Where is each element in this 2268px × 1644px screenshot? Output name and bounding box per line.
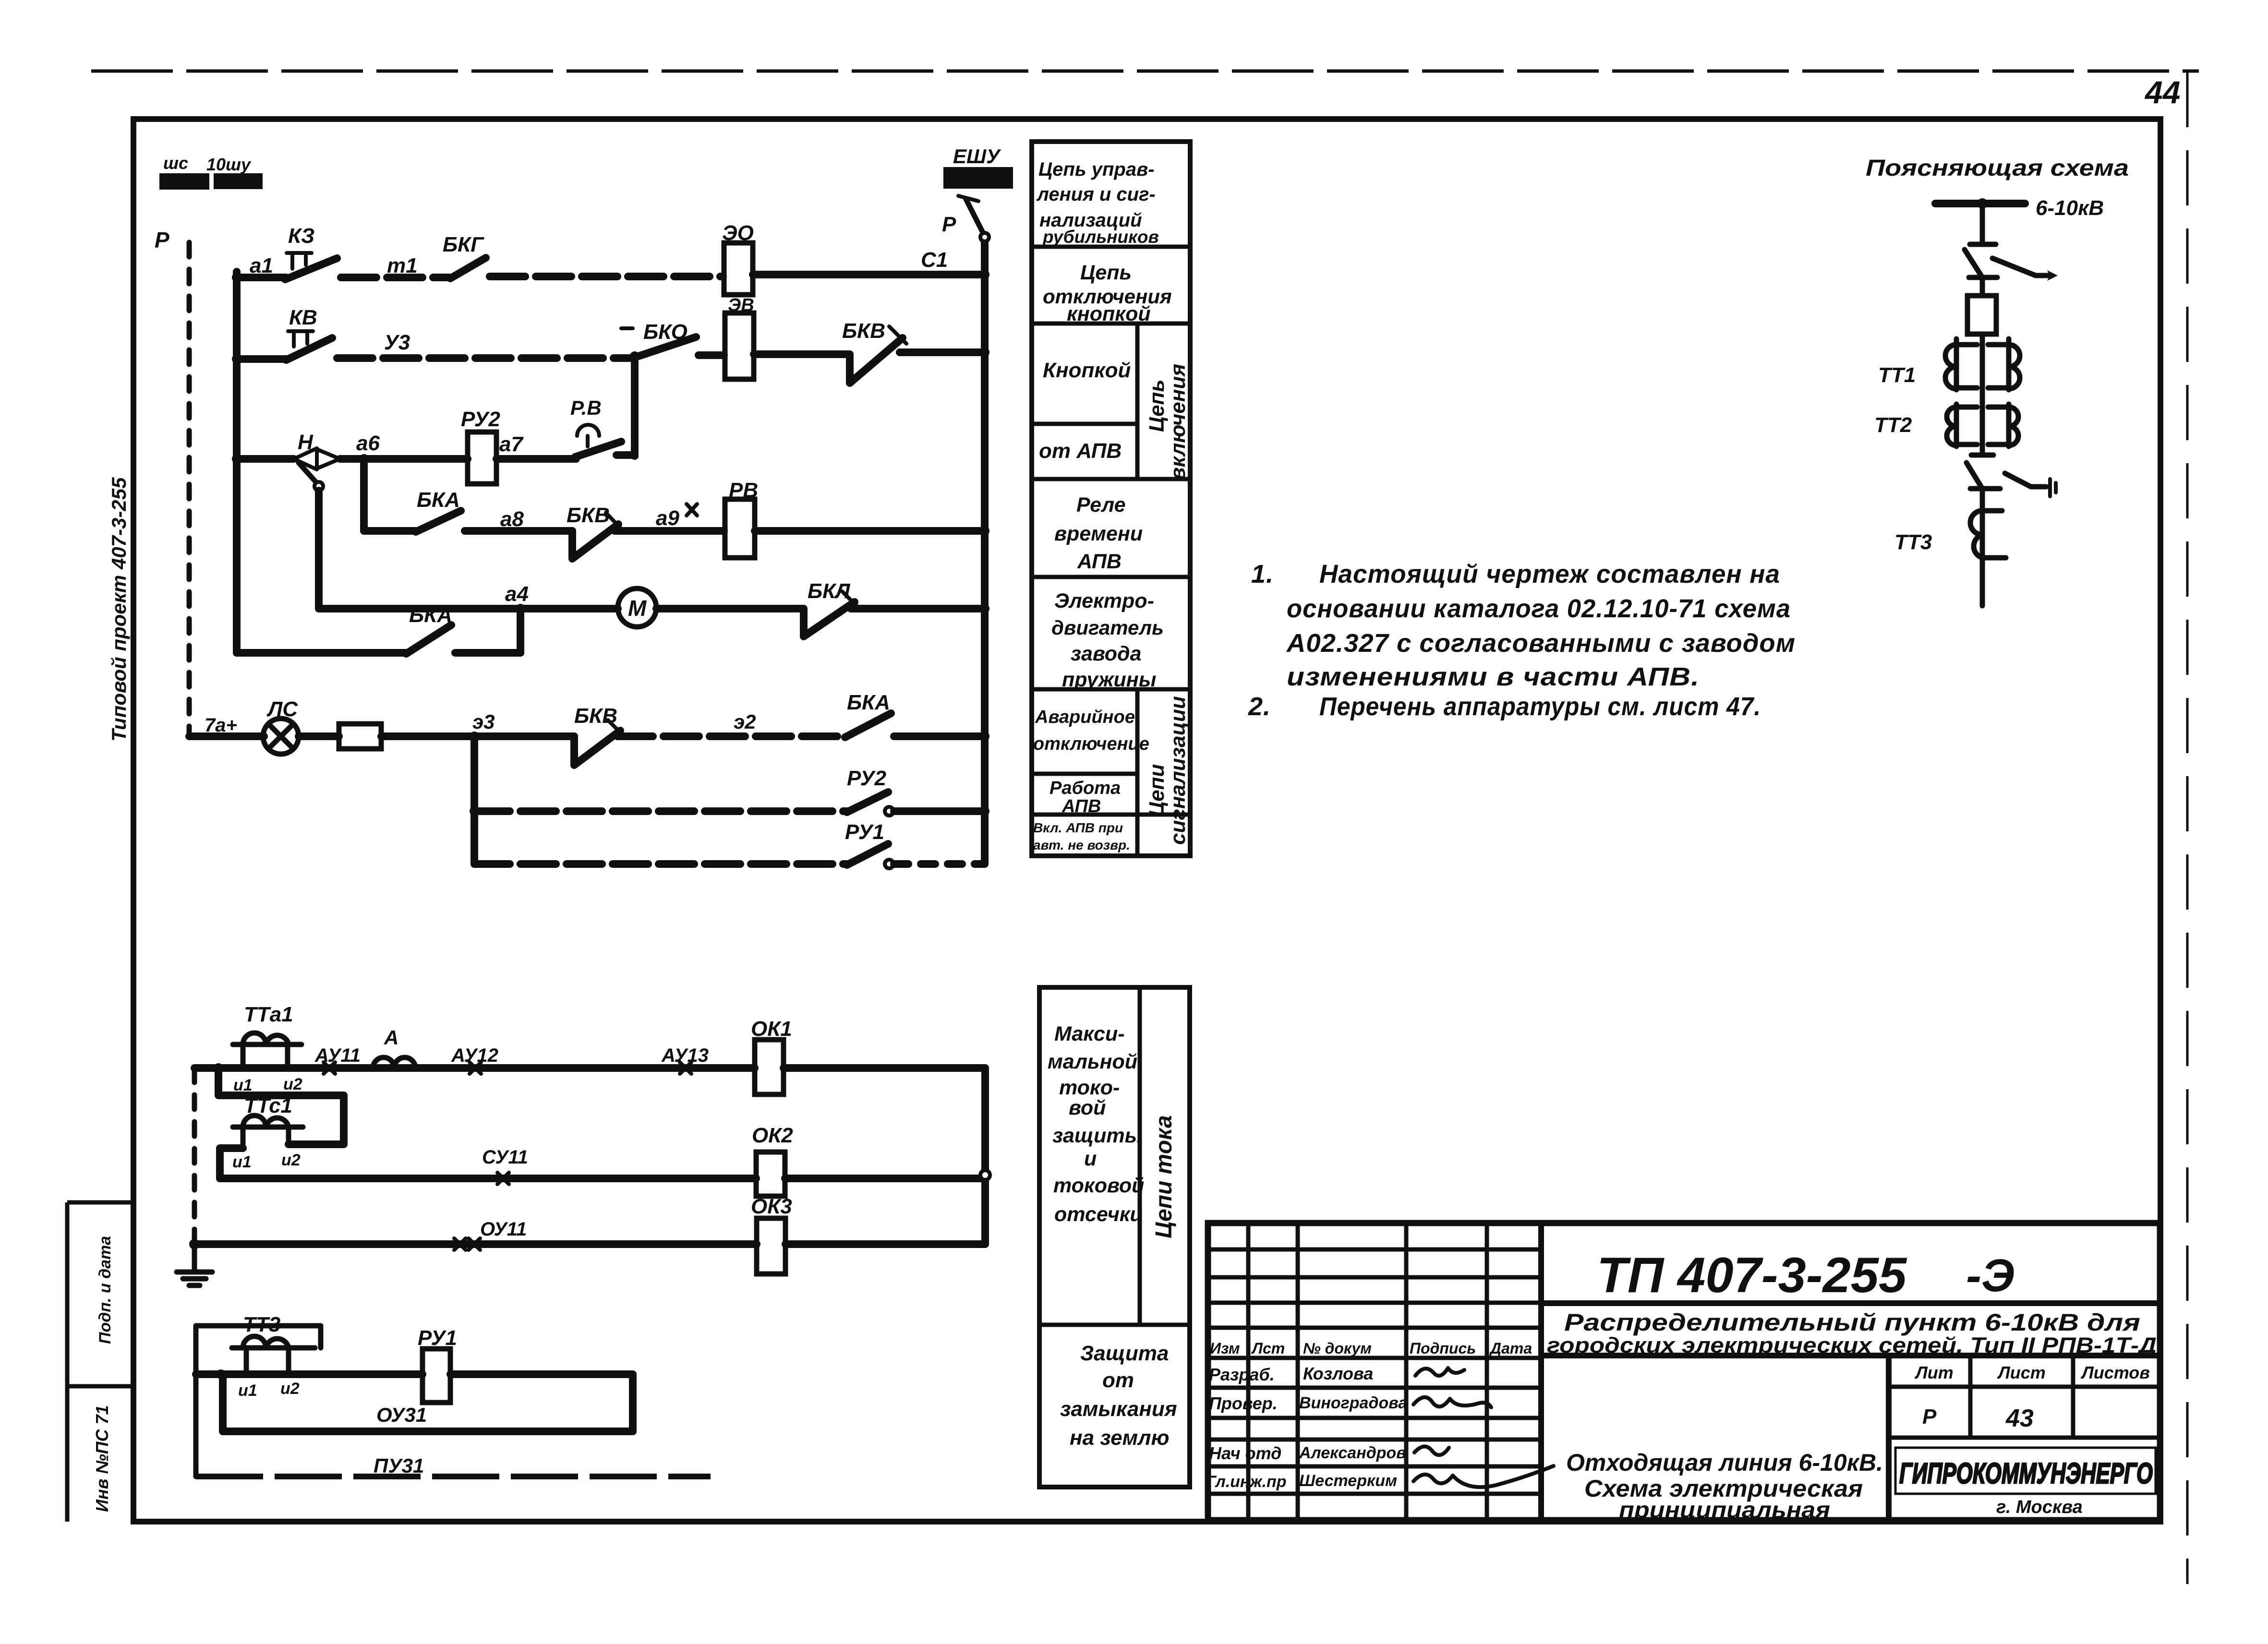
svg-text:кнопкой: кнопкой — [1067, 302, 1151, 325]
contact KV (button, NO) — [286, 306, 332, 360]
coil RV (time relay) — [725, 479, 758, 558]
svg-text:БКВ: БКВ — [567, 504, 610, 527]
svg-text:ТТ3: ТТ3 — [1894, 530, 1932, 554]
wire to TT3 — [1980, 489, 1985, 511]
wire row2 left segment — [232, 354, 241, 364]
svg-text:и2: и2 — [283, 1075, 302, 1093]
left margin stamp box upper — [67, 1202, 133, 1522]
svg-text:Поясняющая схема: Поясняющая схема — [1866, 156, 2129, 181]
CT TTc1 — [232, 1094, 303, 1171]
redaction bar 3 — [943, 167, 1013, 189]
contact RU1 (NO) — [845, 820, 893, 868]
svg-text:и1: и1 — [238, 1381, 257, 1400]
svg-text:а9: а9 — [656, 506, 679, 530]
wire row D (TT3 secondary), node — [216, 1369, 226, 1379]
contact BKA (NO) row4 — [416, 488, 461, 532]
CT TT3 (zero sequence) — [196, 1313, 321, 1476]
CT TT1 — [1878, 339, 2020, 390]
sheet outer right edge (dashed) — [2186, 72, 2189, 1584]
svg-text:С1: С1 — [921, 248, 948, 272]
wire row B (phase C current), node СУ11 — [220, 1175, 756, 1182]
wire: riser lamp row to RU rows — [470, 736, 478, 864]
ground (current circuits) — [177, 1239, 212, 1285]
wire lamp row right end — [894, 732, 985, 740]
relay coil OK1 — [751, 1017, 792, 1094]
svg-text:43: 43 — [2005, 1404, 2034, 1432]
svg-text:Гл.инж.пр: Гл.инж.пр — [1206, 1473, 1287, 1491]
svg-text:Подп. и дата: Подп. и дата — [96, 1236, 114, 1344]
svg-text:Козлова: Козлова — [1303, 1364, 1373, 1383]
svg-text:Дата: Дата — [1489, 1340, 1532, 1357]
contact BKV (breaker aux, NC) row2 — [842, 319, 906, 383]
svg-text:ЕШУ: ЕШУ — [953, 145, 1001, 168]
relay coil RU1 (earth fault relay) — [418, 1326, 457, 1403]
motor M (spring winding) — [618, 588, 656, 627]
wire outgoing line — [1980, 511, 1985, 606]
wire row D right — [450, 1374, 633, 1431]
svg-text:ления и сиг-: ления и сиг- — [1036, 184, 1156, 205]
svg-text:БКВ: БКВ — [842, 319, 885, 343]
wire row A (phase A current), node АУ11 — [214, 1063, 223, 1073]
svg-text:Цепи тока: Цепи тока — [1151, 1115, 1177, 1238]
wire lamp row left, node 7a+ — [189, 732, 264, 740]
CT TT3 (cable type) — [1894, 511, 2006, 558]
wire row4 right end — [755, 527, 985, 535]
svg-text:а6: а6 — [356, 432, 380, 455]
svg-text:ТТа1: ТТа1 — [244, 1003, 293, 1026]
svg-text:защиты: защиты — [1052, 1124, 1142, 1147]
svg-text:э2: э2 — [734, 710, 756, 733]
svg-text:БКА: БКА — [409, 603, 452, 627]
svg-text:РУ2: РУ2 — [847, 767, 886, 790]
disconnector DS1 with earthing knife — [1965, 250, 2058, 281]
svg-text:г. Москва: г. Москва — [1996, 1497, 2083, 1517]
svg-text:Защита: Защита — [1080, 1342, 1169, 1365]
contact BKA (NO) bypass — [406, 603, 452, 654]
svg-text:Цепь управ-: Цепь управ- — [1038, 159, 1155, 180]
wire RU2 row (dashed) — [470, 806, 479, 816]
svg-text:Александров: Александров — [1299, 1444, 1406, 1462]
svg-text:Виноградова: Виноградова — [1299, 1394, 1407, 1412]
svg-text:т1: т1 — [387, 254, 418, 277]
svg-text:БКА: БКА — [417, 488, 460, 512]
wire row A right — [784, 1064, 985, 1072]
svg-text:КЗ: КЗ — [288, 224, 314, 248]
svg-text:ОК2: ОК2 — [752, 1124, 793, 1147]
svg-text:СУ11: СУ11 — [482, 1147, 528, 1168]
title block: organisation logo — [1895, 1448, 2156, 1494]
relay coil OK2 — [752, 1124, 793, 1196]
wire bypass row (BKA) — [237, 649, 406, 657]
svg-text:токо-: токо- — [1059, 1076, 1120, 1099]
svg-text:Шестерким: Шестерким — [1299, 1472, 1397, 1490]
wire row F (primary loop), node ПУ31 — [196, 1474, 711, 1479]
wire row E (return), node ОУ31 — [223, 1374, 633, 1431]
svg-text:АУ13: АУ13 — [661, 1045, 709, 1066]
svg-text:Перечень аппаратуры см. лист 4: Перечень аппаратуры см. лист 47. — [1319, 692, 1761, 721]
disconnector P (top right) — [942, 196, 989, 241]
wire row1 left segment, node a1 — [232, 273, 241, 282]
svg-text:основании каталога 02.12.10-71: основании каталога 02.12.10-71 схема — [1287, 594, 1791, 623]
switch N (manual, bowtie) — [294, 431, 340, 469]
svg-text:Отходящая линия 6-10кВ.: Отходящая линия 6-10кВ. — [1566, 1449, 1883, 1476]
wire: riser a6 to row4 — [360, 459, 368, 531]
svg-text:а1: а1 — [250, 254, 273, 277]
svg-text:сигнализации: сигнализации — [1166, 696, 1190, 845]
contact KZ (button, NO) — [285, 224, 337, 279]
wire row C right — [785, 1240, 985, 1248]
sheet outer top edge (dashed) — [91, 70, 2199, 73]
wire row2 right end — [900, 348, 985, 356]
wire row3 left segment — [232, 454, 241, 464]
svg-text:БКГ: БКГ — [443, 233, 484, 256]
svg-text:от: от — [1102, 1368, 1134, 1392]
svg-text:6-10кВ: 6-10кВ — [2036, 196, 2104, 220]
contact BKV (breaker aux, NC) lamp row — [574, 704, 623, 765]
svg-text:Нач отд: Нач отд — [1209, 1443, 1281, 1463]
svg-text:включения: включения — [1166, 364, 1190, 480]
svg-text:У3: У3 — [384, 331, 410, 354]
svg-text:ПУ31: ПУ31 — [374, 1454, 424, 1477]
disconnector DS2 with earthing knife — [1966, 463, 2056, 496]
wire loop TTa1 to TTc1 — [218, 1068, 344, 1144]
svg-text:10шу: 10шу — [206, 155, 252, 174]
wire bypass right to a4 riser — [455, 649, 520, 657]
svg-text:а7: а7 — [499, 432, 524, 456]
left margin stamp box divider — [67, 1384, 133, 1389]
svg-text:ОУ11: ОУ11 — [480, 1219, 527, 1240]
relay coil OK3 — [751, 1195, 792, 1274]
svg-text:ОУ31: ОУ31 — [376, 1404, 427, 1426]
wire row5 right end — [851, 605, 985, 612]
svg-text:мальной: мальной — [1048, 1050, 1137, 1073]
inductor A (reactor) — [373, 1026, 415, 1068]
svg-text:АУ12: АУ12 — [451, 1045, 498, 1066]
wire to resistor — [299, 732, 339, 740]
svg-text:от АПВ: от АПВ — [1039, 439, 1122, 463]
svg-text:Вкл. АПВ при: Вкл. АПВ при — [1033, 820, 1123, 835]
svg-text:Настоящий чертеж составлен н: Настоящий чертеж составлен на — [1319, 560, 1780, 588]
svg-text:Реле: Реле — [1076, 493, 1126, 516]
svg-text:Р: Р — [1922, 1405, 1937, 1428]
wire: riser a4 to bypass row — [517, 609, 524, 653]
svg-text:шс: шс — [163, 153, 188, 173]
svg-text:замыкания: замыкания — [1060, 1397, 1177, 1421]
title block frame — [1208, 1223, 2160, 1520]
svg-text:отключение: отключение — [1033, 734, 1149, 754]
svg-text:2.: 2. — [1248, 692, 1271, 721]
redaction bar 2 — [214, 173, 263, 189]
svg-text:Подпись: Подпись — [1410, 1340, 1476, 1357]
svg-text:Инв №ПС 71: Инв №ПС 71 — [92, 1405, 112, 1512]
svg-text:и1: и1 — [232, 1153, 252, 1171]
svg-text:принципиальная: принципиальная — [1619, 1498, 1830, 1523]
wire row1 to coil (dashed) — [490, 273, 723, 280]
svg-text:Цепь: Цепь — [1080, 261, 1132, 284]
svg-text:А: А — [384, 1026, 398, 1049]
wire row4, node a8 — [465, 527, 572, 535]
wire row B left link — [220, 1148, 243, 1178]
svg-text:1.: 1. — [1251, 560, 1274, 588]
wire: riser N to motor row — [315, 491, 323, 609]
svg-text:Цепь: Цепь — [1145, 379, 1169, 432]
CT TT2 — [1874, 404, 2018, 446]
lower function table frame — [1039, 987, 1190, 1487]
svg-text:Листов: Листов — [2080, 1363, 2150, 1382]
resistor R (ballast) — [339, 724, 381, 749]
svg-text:Р: Р — [942, 213, 956, 236]
svg-text:7а+: 7а+ — [205, 715, 237, 736]
svg-text:рубильников: рубильников — [1042, 227, 1159, 247]
svg-text:и2: и2 — [280, 1380, 300, 1398]
svg-text:токовой: токовой — [1053, 1174, 1144, 1197]
wire row3 mid, node a6 — [340, 455, 468, 463]
svg-text:Изм: Изм — [1210, 1340, 1240, 1357]
wire row4 (APV time relay row) — [364, 527, 417, 535]
svg-text:вой: вой — [1069, 1096, 1106, 1119]
wire row2 to coil EV — [699, 351, 724, 359]
contact BKO (NO) — [621, 320, 696, 356]
wire RU2 right end — [894, 807, 985, 815]
left control bus — [233, 272, 241, 653]
svg-text:Лст: Лст — [1251, 1340, 1285, 1357]
svg-text:а8: а8 — [500, 507, 524, 531]
contact BKL (breaker aux, NC) — [804, 579, 858, 636]
svg-text:Цепи: Цепи — [1145, 764, 1169, 817]
wire row1 right segment, node C1 — [753, 271, 985, 278]
wire to breaker — [1980, 277, 1985, 296]
svg-text:ТТ1: ТТ1 — [1878, 363, 1916, 387]
redaction bar 1 — [159, 173, 209, 190]
contact RU2 (NO) — [847, 767, 893, 816]
svg-text:РУ2: РУ2 — [461, 408, 500, 431]
wire row C (earth fault), node ОУ11 — [194, 1240, 757, 1248]
coil RU2 (relay) — [461, 408, 500, 484]
svg-text:Аварийное: Аварийное — [1035, 707, 1135, 727]
svg-text:М: М — [628, 596, 647, 621]
upper function table frame — [1032, 142, 1190, 856]
drawing frame — [133, 119, 2160, 1522]
coil EO (trip solenoid) — [722, 221, 754, 295]
contact BKA (NO) lamp row — [845, 691, 891, 737]
wire row1 mid (dashed), node m1 — [341, 274, 449, 281]
lamp LS (signal lamp) — [263, 697, 299, 754]
wire row5 mid — [656, 605, 804, 612]
svg-text:Разраб.: Разраб. — [1209, 1365, 1275, 1384]
svg-text:двигатель: двигатель — [1051, 616, 1164, 639]
right control bus — [981, 240, 989, 864]
wire: riser row2 to row3 — [631, 356, 639, 456]
svg-text:44: 44 — [2144, 74, 2180, 110]
svg-text:РУ1: РУ1 — [845, 820, 884, 844]
svg-text:ОК3: ОК3 — [751, 1195, 792, 1218]
svg-text:Макси-: Макси- — [1054, 1022, 1125, 1045]
svg-text:ТП 407-3-255: ТП 407-3-255 — [1597, 1248, 1907, 1303]
node: junction row2/row3 riser — [630, 351, 639, 361]
current circuits: left bus (dashed) — [192, 1068, 197, 1243]
wire row B right with terminal — [785, 1175, 985, 1182]
contact BKG (NO) — [443, 233, 486, 278]
svg-text:Кнопкой: Кнопкой — [1043, 359, 1131, 382]
svg-text:ГИПРОКОММУНЭНЕРГО: ГИПРОКОММУНЭНЕРГО — [1899, 1457, 2153, 1489]
svg-text:завода: завода — [1071, 642, 1142, 665]
svg-text:времени: времени — [1054, 522, 1143, 545]
svg-text:Распределительный пункт 6-10кВ: Распределительный пункт 6-10кВ для — [1564, 1309, 2140, 1336]
svg-text:КВ: КВ — [289, 306, 317, 329]
coil EV (closing solenoid) — [725, 295, 754, 379]
wire right vertical of current circuits — [981, 1068, 989, 1244]
wire row2 after coil — [754, 350, 850, 358]
svg-text:Лист: Лист — [1997, 1363, 2046, 1382]
svg-text:и: и — [1084, 1147, 1097, 1170]
wire: drop from bus — [1980, 204, 1985, 244]
svg-text:а4: а4 — [505, 582, 529, 606]
svg-text:-Э: -Э — [1966, 1250, 2015, 1301]
svg-text:БКА: БКА — [847, 691, 890, 714]
svg-text:ТТ2: ТТ2 — [1874, 413, 1912, 437]
svg-text:авт. не возвр.: авт. не возвр. — [1033, 838, 1130, 852]
svg-text:Р: Р — [155, 228, 169, 252]
svg-text:АУ11: АУ11 — [314, 1045, 361, 1066]
wire lamp row mid, node — [381, 732, 574, 740]
svg-text:Р.В: Р.В — [570, 396, 602, 419]
svg-text:Типовой проект 407-3-255: Типовой проект 407-3-255 — [108, 477, 130, 742]
wire row4, node a9 — [615, 527, 724, 535]
svg-text:№ докум: № докум — [1303, 1340, 1372, 1357]
svg-text:Работа: Работа — [1050, 778, 1121, 798]
wire RU1 right end — [894, 860, 985, 868]
svg-text:изменениями в части АПВ.: изменениями в части АПВ. — [1287, 662, 1700, 691]
svg-text:э3: э3 — [472, 710, 495, 733]
svg-text:АПВ: АПВ — [1077, 550, 1122, 573]
CT TTa1 — [233, 1003, 302, 1094]
wire: dashed riser from P to lamp row — [187, 242, 192, 736]
wire row5 (spring motor row), node a4 — [319, 605, 618, 612]
wire row2 mid (dashed), node У3 — [337, 354, 632, 362]
svg-text:АПВ: АПВ — [1062, 796, 1101, 816]
wire lamp row, node e2 — [617, 732, 846, 740]
svg-text:и2: и2 — [281, 1151, 301, 1169]
switch N lower blade and node — [299, 463, 315, 481]
wire row3 right end to riser — [616, 451, 635, 459]
contact RV (time relay, NO delayed) — [570, 396, 621, 457]
svg-text:отсечки: отсечки — [1054, 1203, 1143, 1226]
svg-text:пружины: пружины — [1062, 668, 1156, 691]
svg-text:городских электрических сетей.: городских электрических сетей. Тип II РП… — [1547, 1333, 2157, 1357]
svg-text:на землю: на землю — [1070, 1426, 1170, 1450]
svg-text:Провер.: Провер. — [1209, 1393, 1278, 1413]
wire row3 after coil, node a7 — [496, 455, 576, 463]
svg-text:Лит: Лит — [1914, 1363, 1954, 1382]
contact BKV (breaker aux, NC) row4 — [567, 504, 621, 559]
circuit breaker B — [1967, 296, 1996, 334]
svg-text:А02.327 с согласованными с зав: А02.327 с согласованными с заводом — [1286, 629, 1796, 658]
svg-text:Электро-: Электро- — [1054, 589, 1154, 612]
bus 6-10kV — [1935, 200, 2025, 207]
wire through CTs — [1980, 334, 1985, 455]
wire RU1 row (dashed) — [474, 860, 847, 868]
